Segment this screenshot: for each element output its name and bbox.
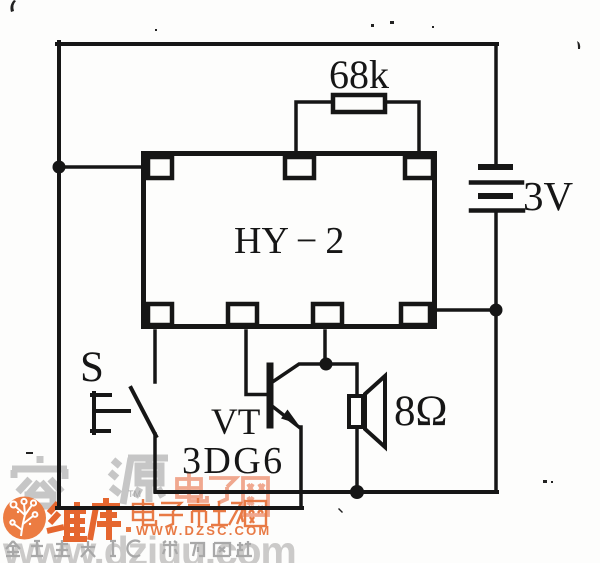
battery BT1 3V bbox=[471, 167, 523, 211]
wire IC pin to collector node bbox=[323, 331, 327, 362]
transistor Q1 collector bbox=[271, 364, 326, 383]
pin bottom-1 bbox=[148, 304, 172, 325]
svg-text:3V: 3V bbox=[523, 173, 574, 219]
wire bottom rail bbox=[156, 490, 497, 494]
pink outline char WANG bbox=[243, 478, 268, 515]
orange solid char KU bbox=[90, 498, 121, 540]
node collector junction bbox=[320, 358, 333, 371]
svg-text:68k: 68k bbox=[329, 52, 389, 97]
svg-text:www.dziuu.com: www.dziuu.com bbox=[2, 528, 296, 563]
orange solid char WEI bbox=[47, 502, 87, 540]
orange url WWW.DZSC.COM bbox=[126, 527, 131, 532]
pin top-middle bbox=[285, 157, 314, 178]
pink outline char DIAN bbox=[177, 473, 207, 501]
transistor Q1 base bar bbox=[267, 366, 274, 425]
wire resistor left leg bbox=[296, 102, 333, 153]
switch S lever bbox=[131, 388, 156, 436]
wire IC right pin to battery bbox=[437, 308, 493, 312]
wire left rail to IC pin1 bbox=[59, 165, 143, 169]
orange outline char SHI bbox=[188, 498, 210, 527]
IC U1 HY-2 body bbox=[144, 154, 435, 327]
speaker LS1 coil bbox=[349, 396, 363, 427]
wire collector node to speaker bbox=[328, 364, 357, 396]
transistor Q1 emitter arrow bbox=[281, 410, 298, 425]
transistor Q1 base wire bbox=[246, 331, 266, 395]
transistor Q1 emitter bbox=[272, 406, 299, 427]
wire left edge bbox=[57, 42, 61, 508]
svg-text:HY−2: HY−2 bbox=[234, 220, 344, 262]
wire lower-left rail (emitter return) bbox=[57, 506, 302, 510]
gray char YUAN bbox=[110, 458, 168, 504]
pin top-right bbox=[405, 157, 433, 178]
weiku logo circle bbox=[3, 497, 46, 540]
wire resistor right leg bbox=[386, 102, 419, 153]
orange outline char ZI2 bbox=[159, 503, 183, 527]
orange outline char WANG2 bbox=[245, 501, 266, 526]
switch S wire down to rail bbox=[153, 434, 157, 492]
gray char RONG bbox=[12, 456, 67, 506]
gray slogan chars (QUAN QIU ZUI DA I C CAI GOU WANG ZHAN) bbox=[6, 540, 252, 557]
node speaker/rail junction bbox=[350, 485, 364, 499]
switch S: wire from IC pin bbox=[153, 331, 157, 382]
svg-text:S: S bbox=[80, 344, 104, 391]
resistor R1 68k body bbox=[333, 95, 385, 112]
svg-text:TM: TM bbox=[128, 489, 141, 499]
node battery/pin junction bbox=[490, 304, 503, 317]
svg-text:3DG6: 3DG6 bbox=[182, 440, 285, 482]
wire right edge top (battery feed) bbox=[494, 44, 498, 167]
wire emitter down and to lower rail bbox=[299, 427, 303, 506]
pink outline char ZI bbox=[206, 478, 240, 503]
orange outline char CHANG bbox=[211, 501, 243, 525]
pin bottom-4 bbox=[401, 304, 430, 325]
svg-text:VT: VT bbox=[211, 402, 260, 443]
wire speaker to bottom rail bbox=[355, 429, 359, 490]
pin bottom-3 bbox=[313, 304, 342, 325]
wire battery negative down bbox=[494, 213, 498, 492]
orange outline char DIAN2 bbox=[133, 499, 156, 525]
svg-text:8Ω: 8Ω bbox=[394, 388, 447, 435]
switch S fixed contact bbox=[92, 393, 129, 433]
pin bottom-2 bbox=[228, 304, 257, 325]
wire top rail bbox=[57, 42, 497, 46]
node left rail junction bbox=[53, 161, 66, 174]
pin top-left bbox=[148, 157, 172, 178]
speaker LS1 cone bbox=[365, 376, 385, 447]
